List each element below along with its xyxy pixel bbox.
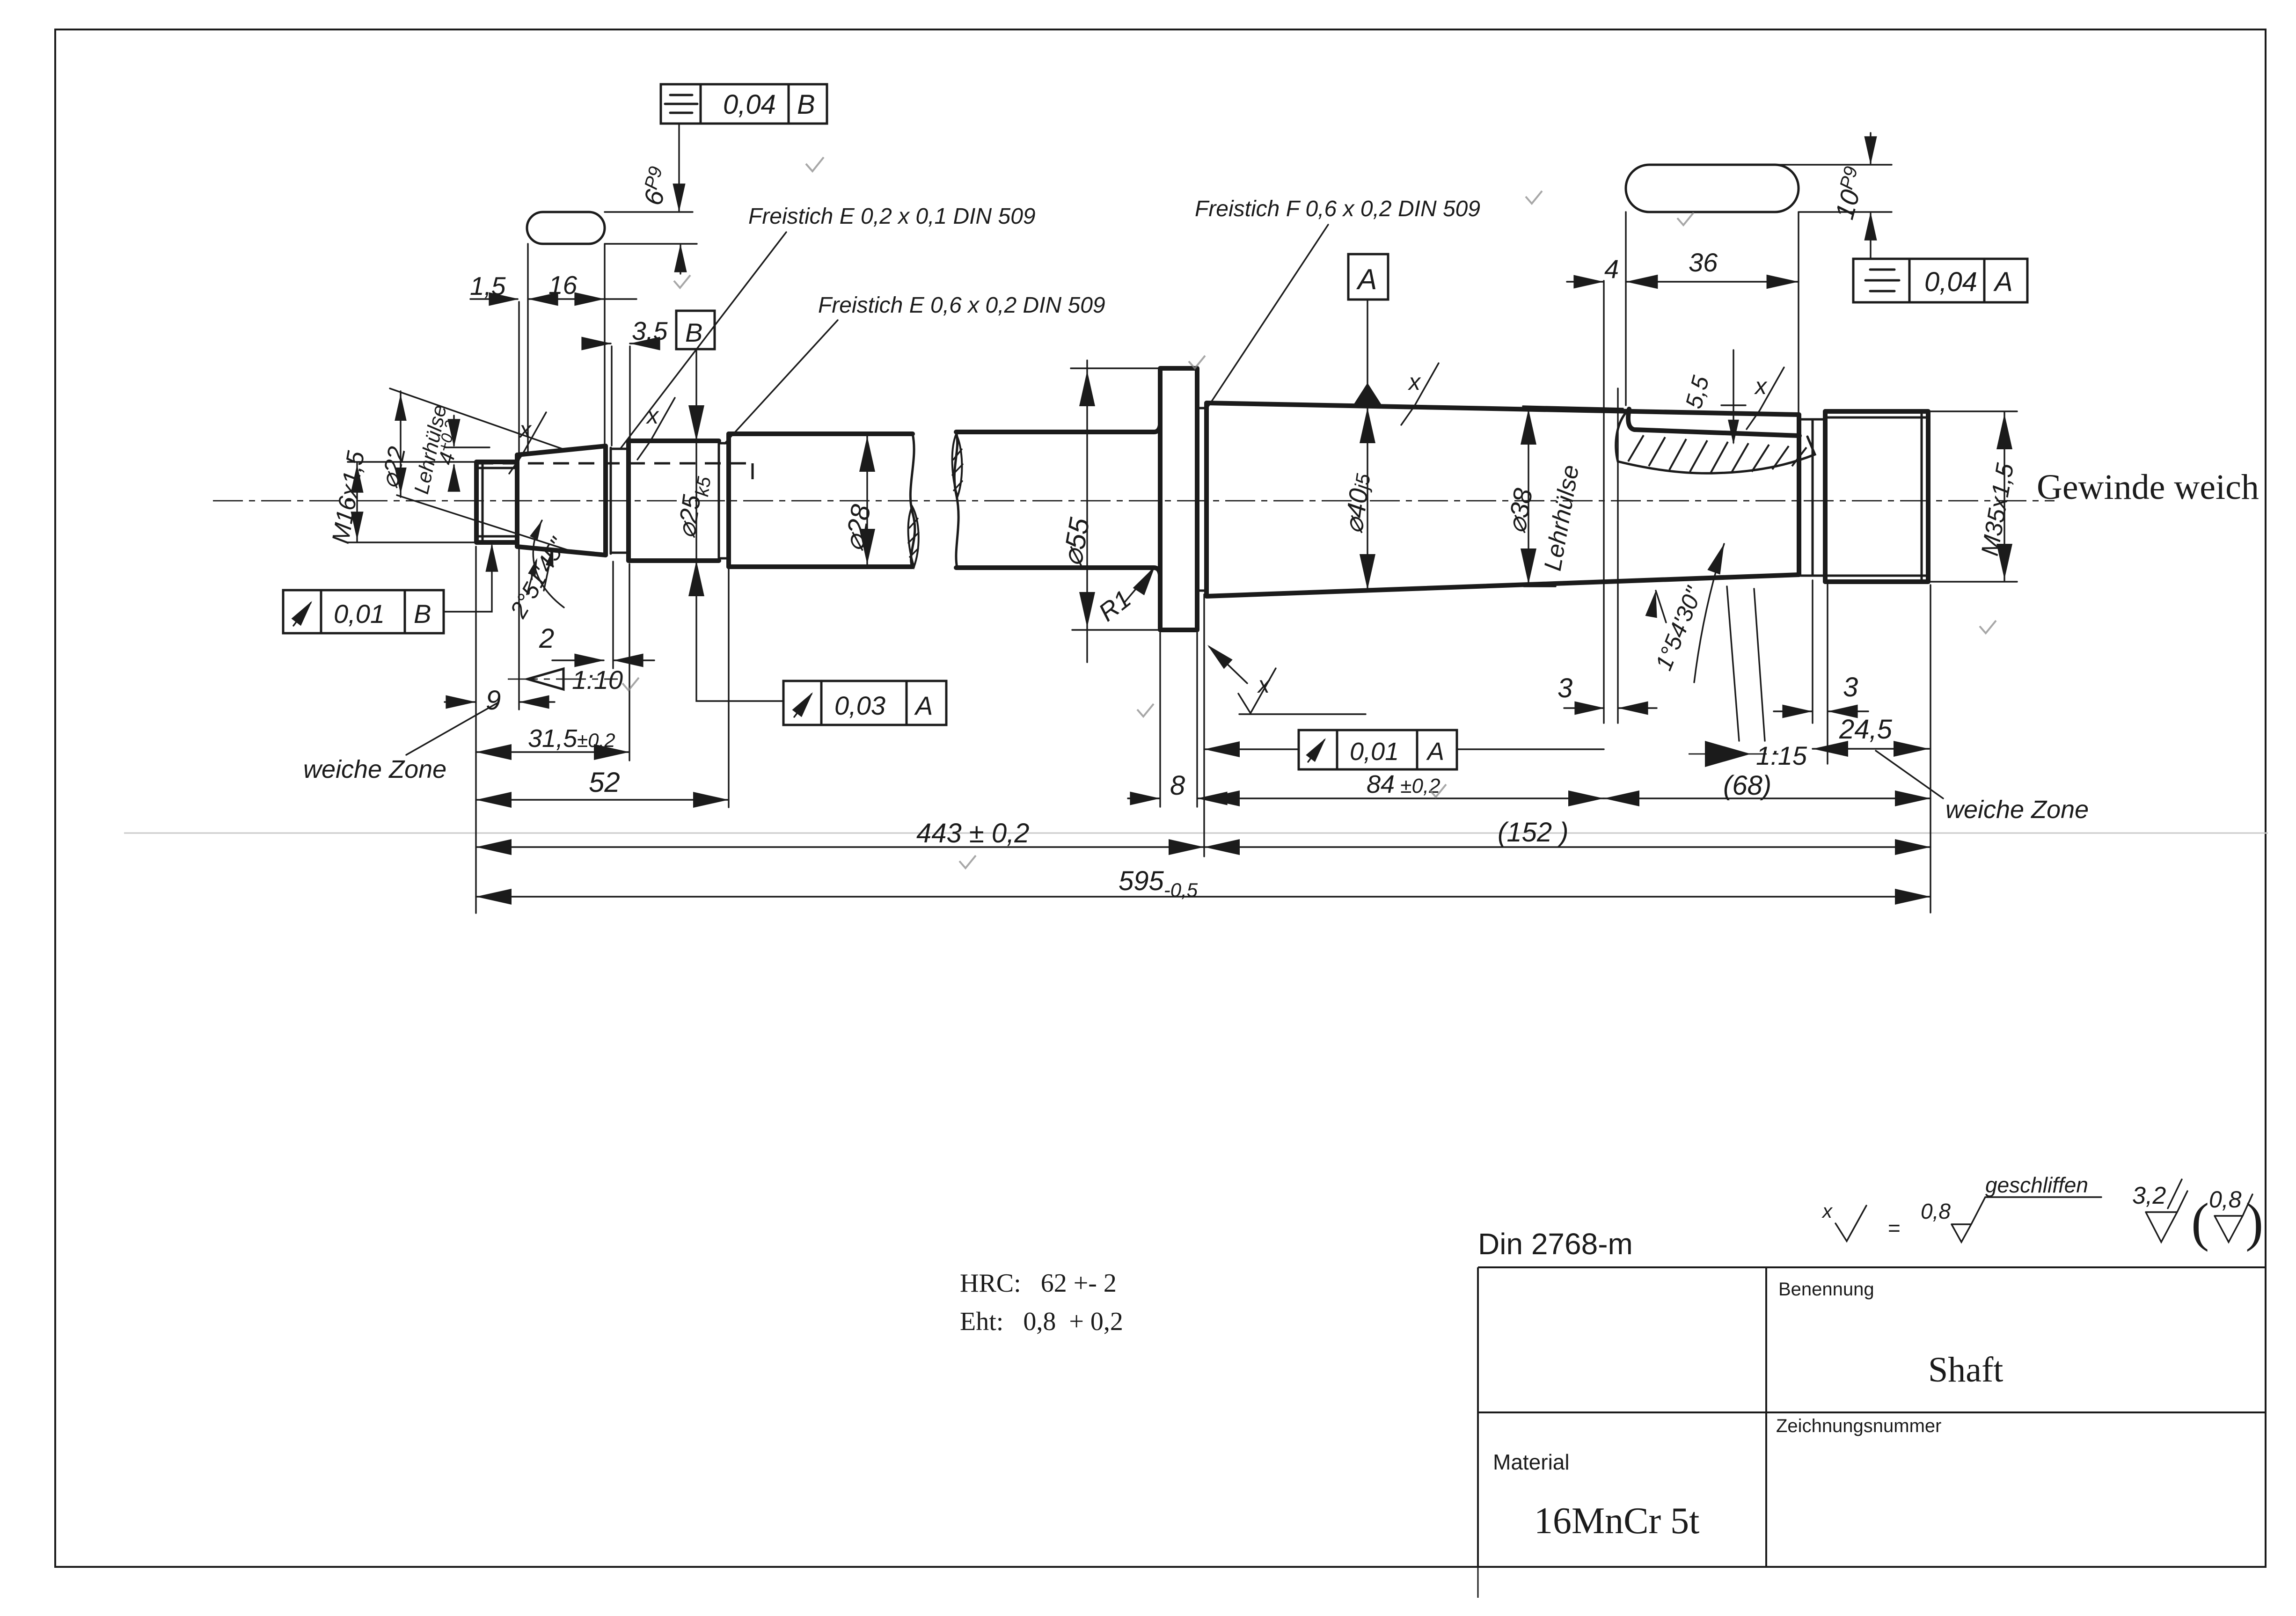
dimension 10P9: [1828, 133, 1877, 259]
dimension 36 (keyway length): [1626, 248, 1799, 289]
dimension 3 (right, neck): [1774, 580, 1868, 764]
svg-text:1:15: 1:15: [1756, 741, 1807, 770]
svg-text:3,2: 3,2: [2132, 1182, 2166, 1209]
keyway top view 36x10P9: [1626, 165, 1892, 413]
svg-text:36: 36: [1689, 248, 1718, 277]
dimension O55: [1056, 360, 1169, 662]
angle dimension 1deg54'30'': [1645, 541, 1765, 741]
svg-text:0,8: 0,8: [2209, 1186, 2242, 1213]
dimension 4 (keyway offset): [1567, 254, 1619, 288]
datum box A with leader and solid triangle: [1348, 254, 1388, 406]
svg-text:443 ± 0,2: 443 ± 0,2: [916, 818, 1029, 848]
undercut Freistich E 0,6x0,2: [719, 434, 729, 567]
dimension 4+0,2: [432, 416, 490, 492]
dimension 443+-0,2: [476, 547, 1204, 913]
hardness note HRC / Eht: [960, 1269, 1123, 1336]
svg-text:Zeichnungsnummer: Zeichnungsnummer: [1776, 1416, 1942, 1436]
note Freistich E 0,2x0,1 DIN 509 with leader: [621, 204, 1036, 448]
svg-text:Din 2768-m: Din 2768-m: [1478, 1227, 1633, 1261]
flange O55: [1160, 368, 1197, 630]
svg-text:1,5: 1,5: [470, 271, 506, 300]
dimension O22 Lehrhuelse on taper: [376, 388, 575, 552]
svg-text:3: 3: [1557, 673, 1572, 703]
centerline: [213, 500, 2055, 502]
datum box B with leader to O25k5 dimension: [676, 311, 783, 701]
svg-text:x: x: [519, 417, 532, 443]
svg-text:x: x: [1408, 369, 1421, 395]
shaft section O25k5: [629, 441, 719, 561]
dimension 5,5 keyway depth: [1681, 350, 1746, 445]
shaft section O28: [729, 434, 913, 567]
cone angle 2deg51'45'': [505, 519, 572, 622]
pencil tick marks: [622, 157, 1996, 868]
svg-text:0,01: 0,01: [334, 599, 385, 629]
taper symbol 1:10: [508, 665, 623, 695]
svg-text:(152 ): (152 ): [1498, 817, 1569, 848]
note Freistich E 0,6x0,2 DIN 509 with leader: [724, 293, 1105, 444]
svg-text:Eht: 0,8 + 0,2: Eht: 0,8 + 0,2: [960, 1307, 1123, 1336]
svg-text:Material: Material: [1493, 1450, 1570, 1474]
svg-text:Shaft: Shaft: [1928, 1350, 2003, 1389]
taper section O40j5 / 1:15: [1206, 403, 1799, 596]
shaft: 1:10 taper cone: [517, 446, 611, 555]
shaft section O28 right of break: [956, 425, 1160, 575]
note weiche Zone (right) with leader: [1876, 751, 2089, 824]
M35 threaded end: [1825, 411, 1928, 582]
svg-text:0,01: 0,01: [1350, 738, 1399, 766]
tolerance frame symmetry 0,04 B: [661, 84, 827, 124]
tolerance frame symmetry 0,04 A: [1853, 259, 2027, 302]
svg-text:3: 3: [1843, 672, 1858, 702]
dimension (68): [1604, 770, 1930, 806]
svg-text:A: A: [1356, 263, 1377, 296]
surface legend (0,8) alternative: [2191, 1186, 2263, 1252]
svg-text:weiche Zone: weiche Zone: [1945, 796, 2089, 824]
svg-text:x: x: [1257, 672, 1271, 698]
dimension 2: [539, 562, 654, 668]
surface mark x on O25k5: [637, 398, 675, 460]
svg-text:(68): (68): [1723, 770, 1771, 801]
title block frame: [1478, 1267, 2266, 1598]
note Freistich F 0,6x0,2 DIN 509 with leader: [1195, 197, 1480, 406]
svg-text:weiche Zone: weiche Zone: [303, 755, 446, 783]
keyway top view 16x6P9: [527, 212, 697, 452]
gauge plane dashed line (Lehrhuelse): [477, 463, 753, 488]
surface mark x on keyway bottom: [1747, 367, 1784, 429]
svg-text:HRC: 62 +- 2: HRC: 62 +- 2: [960, 1269, 1117, 1298]
svg-text:): ): [2245, 1192, 2263, 1252]
svg-text:B: B: [797, 89, 815, 120]
svg-text:2: 2: [539, 623, 554, 654]
surface legend x = 0,8 geschliffen: [1821, 1173, 2101, 1242]
svg-text:Benennung: Benennung: [1778, 1279, 1874, 1300]
dimension 3,5: [581, 316, 667, 446]
dimension O38 Lehrhuelse: [1501, 406, 1623, 586]
dimension 1,5: [470, 271, 519, 460]
svg-text:x: x: [1821, 1200, 1833, 1222]
dimension 9: [445, 548, 555, 716]
svg-text:=: =: [1888, 1216, 1901, 1240]
surface legend 3,2 ground symbol: [2132, 1179, 2187, 1242]
break line 1 with hatched lens: [908, 434, 919, 567]
svg-text:A: A: [1426, 738, 1444, 766]
svg-text:52: 52: [589, 767, 620, 798]
svg-text:1:10: 1:10: [572, 665, 623, 695]
svg-text:x: x: [1754, 373, 1768, 399]
keyway slot in taper with local section hatch: [1616, 409, 1815, 473]
dimension (152): [1204, 817, 1930, 855]
shaft: M16 threaded stub: [476, 462, 517, 542]
svg-text:0,04: 0,04: [1924, 267, 1977, 297]
dimension M35x1,5: [1928, 411, 2019, 582]
undercut Freistich F 0,6x0,2: [1197, 408, 1206, 591]
svg-text:x: x: [646, 402, 659, 429]
surface mark x flag under flange: [1203, 640, 1366, 714]
svg-text:B: B: [685, 318, 702, 347]
note weiche Zone (left) with leader: [303, 703, 497, 783]
svg-text:8: 8: [1170, 770, 1185, 801]
surface mark x on O40j5: [1401, 363, 1439, 425]
svg-text:geschliffen: geschliffen: [1985, 1173, 2088, 1197]
svg-text:0,03: 0,03: [834, 691, 885, 720]
svg-text:Gewinde weich: Gewinde weich: [2037, 468, 2259, 507]
break line 2 with hatched lens: [952, 432, 963, 568]
svg-text:84 ±0,2: 84 ±0,2: [1367, 770, 1440, 798]
svg-text:0,04: 0,04: [723, 89, 776, 120]
runout frame 0,03 A: [783, 681, 946, 725]
dimension 595-0,5: [476, 585, 1930, 913]
svg-text:(: (: [2191, 1192, 2209, 1252]
svg-text:Freistich F 0,6 x 0,2 DIN: Freistich F 0,6 x 0,2 DIN 509: [1195, 197, 1480, 221]
undercut Freistich E 0,2x0,1: [611, 441, 629, 561]
dimension O40j5: [1338, 407, 1375, 591]
taper symbol 1:15: [1689, 741, 1807, 770]
dimension 84+-0,2: [1204, 281, 1604, 856]
dimension 6P9 with leader from 0,04 B frame: [637, 124, 687, 274]
dimension 3 (left, taper start): [1557, 388, 1657, 723]
runout frame 0,01 B with leader to M16 stub: [283, 543, 498, 633]
dimension 31,5+-0,2: [476, 564, 629, 760]
dimension M16x1,5: [327, 449, 493, 546]
svg-text:0,8: 0,8: [1921, 1199, 1951, 1223]
svg-text:9: 9: [486, 685, 501, 716]
svg-text:A: A: [1993, 267, 2013, 297]
dimension 24,5: [1813, 714, 1929, 757]
svg-text:16: 16: [548, 271, 578, 300]
dimension 52: [476, 569, 729, 808]
svg-text:3,5: 3,5: [632, 316, 668, 345]
dimension 16: [528, 271, 636, 306]
dimension 8 (flange width): [1128, 633, 1228, 807]
svg-text:16MnCr 5t: 16MnCr 5t: [1534, 1500, 1699, 1542]
svg-text:4: 4: [1604, 254, 1619, 284]
svg-text:Freistich E 0,2 x 0,1 DIN: Freistich E 0,2 x 0,1 DIN 509: [748, 204, 1036, 229]
surface mark x on taper cone: [509, 412, 546, 474]
taper end neck (weiche Zone groove): [1801, 411, 1825, 582]
svg-text:Freistich E 0,6 x 0,2 DIN: Freistich E 0,6 x 0,2 DIN 509: [818, 293, 1105, 318]
svg-text:24,5: 24,5: [1839, 714, 1893, 745]
svg-text:B: B: [414, 599, 431, 629]
radius R1 with leader: [1093, 563, 1161, 627]
runout frame 0,01 A with leader: [1204, 730, 1604, 769]
svg-text:A: A: [914, 691, 933, 720]
dimension O28: [839, 435, 877, 566]
